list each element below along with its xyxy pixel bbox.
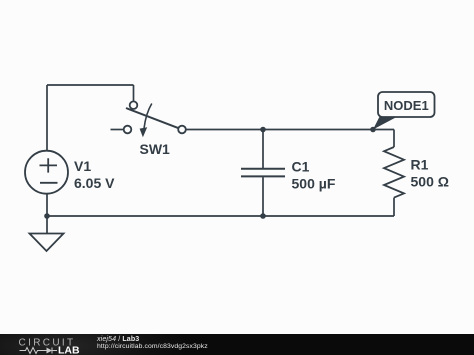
wire capacitor bottom <box>262 177 264 216</box>
junction at capacitor bottom <box>260 213 266 219</box>
svg-text:500 µF: 500 µF <box>292 175 336 191</box>
footer url text <box>97 343 208 350</box>
svg-text:R1: R1 <box>411 157 429 173</box>
svg-text:C1: C1 <box>292 158 310 174</box>
footer user / project text <box>97 335 139 343</box>
svg-text:V1: V1 <box>74 158 91 174</box>
node NODE1 flag <box>370 92 434 132</box>
ground <box>30 234 64 252</box>
capacitor C1 <box>241 169 285 177</box>
svg-text:LAB: LAB <box>58 345 80 355</box>
junction at capacitor top <box>260 127 266 133</box>
footer bar <box>0 334 474 355</box>
wire resistor bottom to rail <box>393 198 395 216</box>
wire rail corner down to resistor <box>393 130 395 148</box>
wire capacitor top <box>262 130 264 169</box>
wire ground stem <box>46 216 48 234</box>
junction at V1 bottom / ground <box>44 213 50 219</box>
svg-text:SW1: SW1 <box>140 141 171 157</box>
svg-text:500 Ω: 500 Ω <box>411 173 449 189</box>
svg-text:6.05 V: 6.05 V <box>74 175 115 191</box>
wire top-left vertical (V1 top to corner) <box>46 85 48 151</box>
CircuitLab logo waveform (resistor + diode) <box>20 348 58 354</box>
switch SW1 <box>124 101 186 137</box>
svg-text:NODE1: NODE1 <box>384 98 429 113</box>
wire down into switch top terminal <box>133 85 135 101</box>
voltage source V1 <box>25 151 68 194</box>
resistor R1 <box>384 147 404 198</box>
wire stub at switch left terminal <box>111 129 124 131</box>
wire top horizontal <box>47 84 134 86</box>
wire switch output to node corner (top rail) <box>186 129 394 131</box>
wire bottom rail <box>47 215 394 217</box>
wire V1 bottom <box>46 194 48 216</box>
